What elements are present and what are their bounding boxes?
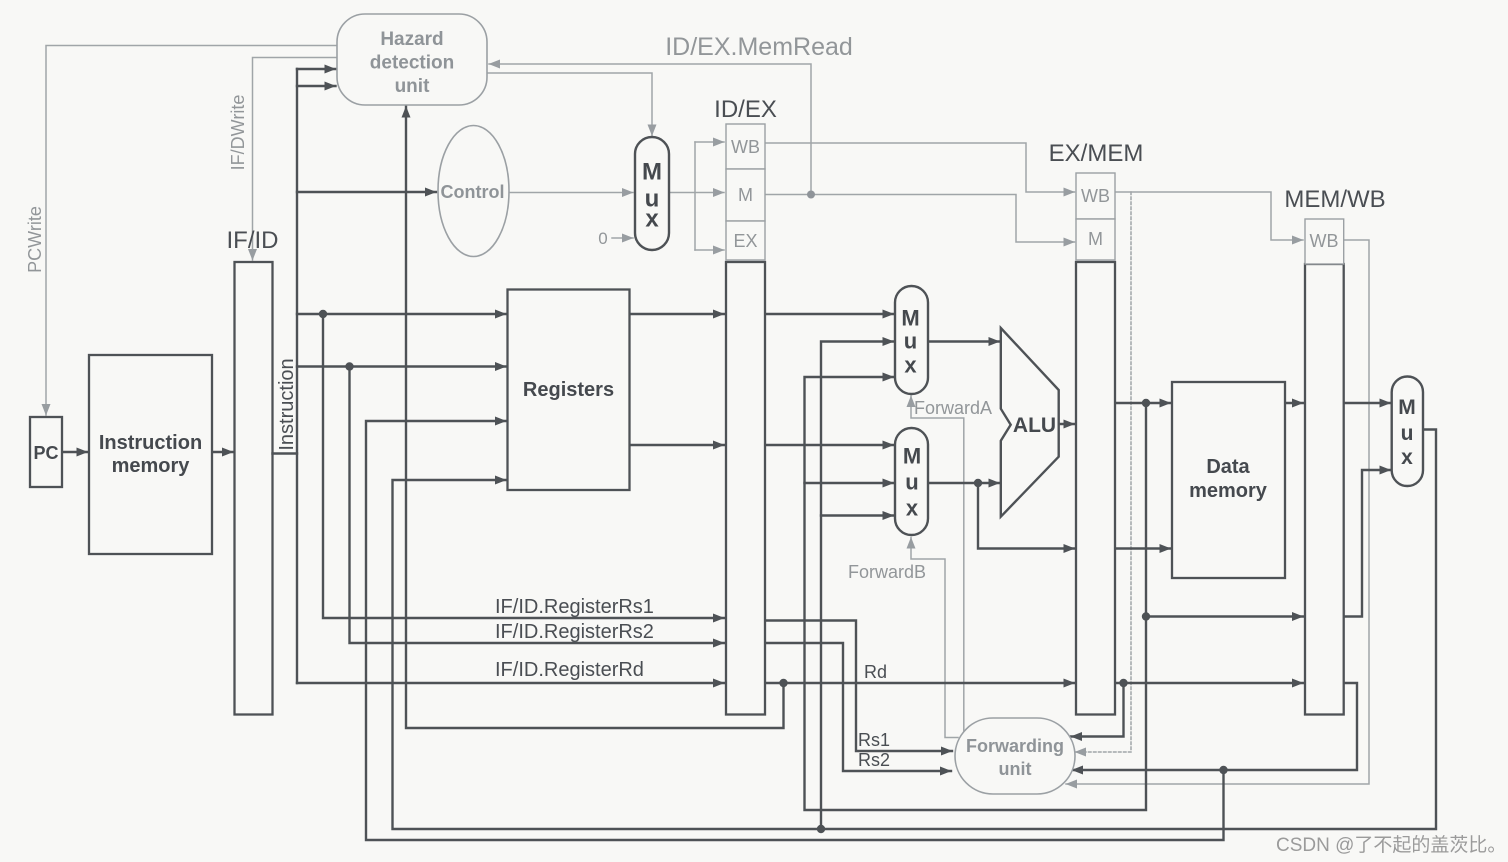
wire Mux3 output to ALU input 2 [928, 482, 1000, 484]
wire hazard control to Mux1 top [487, 73, 652, 136]
wire instruction to Control [297, 191, 436, 193]
ID/EX EX control box [726, 221, 765, 260]
wire IF/ID.RegisterRs1 to ID/EX [323, 314, 724, 618]
wire instruction to Registers read register 1 [297, 313, 506, 315]
wire Control output to Mux1 [509, 192, 633, 194]
svg-text:Instruction: Instruction [276, 358, 298, 450]
wire IF/ID.RegisterRd to ID/EX [297, 682, 724, 684]
Mux2 ForwardA mux [895, 286, 928, 394]
wire Rd from ID/EX to EX/MEM [765, 682, 1075, 684]
svg-text:u: u [904, 329, 917, 354]
svg-text:Instruction: Instruction [99, 432, 202, 454]
wire MEM/WB.RegisterRd to forwarding unit [1072, 683, 1357, 770]
svg-text:Rs1: Rs1 [858, 730, 890, 750]
wire ALU result to EX/MEM [1059, 423, 1075, 425]
svg-text:M: M [901, 306, 919, 331]
wire EX/MEM ALU result to Data memory address [1115, 402, 1171, 404]
svg-text:M: M [1398, 396, 1416, 419]
wire ID/EX read data 1 to Mux2 [765, 313, 894, 315]
node junction Rd hazard tap [779, 679, 787, 687]
node junction WB value forward tap [817, 825, 825, 833]
svg-text:WB: WB [1310, 231, 1339, 251]
wire Instruction memory to IF/ID [212, 451, 233, 453]
wire ForwardA from forwarding unit to Mux2 select [911, 396, 964, 734]
wire WB value stub to Mux3 input 3 [821, 514, 894, 516]
wire instruction to Registers read register 2 [297, 365, 506, 367]
wire split arrow to ID/EX EX [695, 249, 724, 251]
svg-text:M: M [738, 185, 753, 205]
node junction EX/MEM Rd tap [1119, 679, 1127, 687]
Data memory box [1172, 382, 1285, 578]
svg-text:x: x [904, 353, 917, 378]
node junction Rs1 tap [319, 310, 327, 318]
wire IF/ID.RegisterRs2 to ID/EX [350, 367, 725, 644]
wire Mux2 output to ALU input 1 [928, 340, 1000, 342]
ID/EX pipeline register body [726, 262, 765, 715]
Mux3 ForwardB mux [895, 428, 928, 535]
svg-text:IF/ID: IF/ID [227, 227, 279, 254]
wire EX/MEM.RegisterRd down to forwarding unit [1071, 683, 1124, 737]
svg-text:ALU: ALU [1013, 414, 1056, 437]
svg-text:u: u [1401, 422, 1414, 445]
svg-text:Hazard: Hazard [380, 29, 443, 50]
wire instruction bracket out of IF/ID [273, 452, 298, 454]
IF/ID pipeline register [235, 262, 273, 715]
wire ID/EX.RegisterRd feedback to hazard unit [406, 107, 784, 729]
svg-text:MEM/WB: MEM/WB [1284, 186, 1385, 213]
svg-text:Data: Data [1206, 456, 1250, 478]
svg-text:memory: memory [1189, 480, 1268, 502]
node junction Rs2 tap [345, 362, 353, 370]
svg-text:M: M [1088, 229, 1103, 249]
svg-text:CSDN @了不起的盖茨比。: CSDN @了不起的盖茨比。 [1276, 834, 1506, 856]
wire ALU result tap to MEM/WB [1146, 615, 1303, 617]
Mux1 stall mux [635, 137, 669, 250]
wire EX/MEM Rd to MEM/WB [1115, 682, 1303, 684]
node junction ALU result address tap [1142, 399, 1150, 407]
wire instruction stub to hazard unit input 1 [297, 68, 336, 70]
svg-text:ForwardB: ForwardB [848, 562, 926, 582]
svg-text:detection: detection [370, 53, 454, 74]
MEM/WB WB control box [1305, 219, 1344, 264]
wire ID/EX Rs1 to forwarding unit [765, 621, 952, 752]
wire ID/EX M to EX/MEM M [765, 195, 1075, 243]
wire Registers read data 1 to ID/EX [630, 313, 725, 315]
ID/EX WB control box [726, 124, 765, 169]
wire instruction stub to hazard unit input 2 [297, 85, 336, 87]
svg-text:ID/EX: ID/EX [714, 96, 777, 123]
svg-text:Forwarding: Forwarding [966, 736, 1064, 756]
ALU trapezoid [1001, 328, 1059, 517]
Registers box [508, 290, 630, 491]
wire EX/MEM WB to MEM/WB WB [1115, 192, 1303, 240]
forwarding unit [955, 718, 1075, 794]
Control unit ellipse [438, 126, 509, 257]
wire instruction bus vertical [296, 69, 298, 683]
svg-text:Rs2: Rs2 [858, 750, 890, 770]
svg-text:u: u [905, 470, 918, 495]
wire MEM/WB ALU result to Mux4 input 2 [1344, 470, 1391, 617]
svg-text:x: x [645, 206, 659, 233]
svg-text:0: 0 [598, 229, 607, 248]
svg-text:x: x [906, 496, 919, 521]
node junction MEM/WB Rd tap [1219, 766, 1227, 774]
svg-text:IF/DWrite: IF/DWrite [228, 95, 248, 171]
svg-text:Control: Control [441, 182, 505, 202]
wire zero constant into Mux1 [612, 237, 633, 239]
svg-text:unit: unit [395, 76, 430, 97]
Mux4 write-back mux [1392, 377, 1423, 487]
wire Registers read data 2 to ID/EX [630, 444, 725, 446]
svg-text:EX/MEM: EX/MEM [1049, 140, 1144, 167]
PC register box [30, 417, 62, 487]
EX/MEM pipeline register body [1076, 262, 1115, 715]
wire split arrow to ID/EX WB [695, 141, 724, 143]
wire EX/MEM forward stub to Mux3 input 2 [805, 482, 894, 484]
svg-text:IF/ID.RegisterRd: IF/ID.RegisterRd [495, 659, 644, 681]
svg-text:PCWrite: PCWrite [25, 206, 45, 273]
svg-text:ForwardA: ForwardA [914, 398, 992, 418]
wire PCWrite: hazard unit to PC top [46, 46, 337, 416]
svg-text:memory: memory [112, 455, 191, 477]
hazard detection unit [337, 14, 487, 105]
wire PC to Instruction memory [62, 451, 88, 453]
EX/MEM WB control box [1076, 173, 1115, 219]
svg-text:IF/ID.RegisterRs1: IF/ID.RegisterRs1 [495, 596, 654, 618]
wire MEM/WB WB RegWrite to forwarding unit [1066, 240, 1369, 784]
svg-text:EX: EX [733, 231, 757, 251]
svg-text:M: M [642, 159, 662, 186]
svg-text:M: M [903, 444, 921, 469]
svg-text:WB: WB [731, 137, 760, 157]
wire IF/DWrite: hazard unit to IF/ID top [253, 58, 338, 261]
wire Data memory read data to MEM/WB [1285, 402, 1303, 404]
wire EX/MEM ALU result forward down-left to muxes [805, 377, 1147, 810]
wire MEM/WB read data to Mux4 [1344, 402, 1391, 404]
svg-text:ID/EX.MemRead: ID/EX.MemRead [665, 33, 853, 61]
wire ForwardB from forwarding unit to Mux3 select [911, 538, 958, 738]
node junction ALU result MEM/WB tap [1142, 612, 1150, 620]
svg-text:x: x [1401, 446, 1413, 469]
svg-text:Rd: Rd [864, 662, 887, 682]
wire EX/MEM.RegWrite dotted to forwarding unit [1075, 192, 1131, 752]
Instruction memory box [89, 355, 212, 554]
MEM/WB pipeline register body [1305, 264, 1344, 715]
svg-text:unit: unit [999, 759, 1032, 779]
wire write data wrap: Mux4 output to Registers write data [393, 430, 1437, 830]
wire EX/MEM B value to Data memory write data [1115, 547, 1171, 549]
ID/EX M control box [726, 169, 765, 221]
wire store value B to EX/MEM [978, 483, 1075, 549]
wire ID/EX.MemRead feedback to hazard unit [489, 64, 811, 195]
wire split arrow to ID/EX M [695, 192, 724, 194]
svg-text:WB: WB [1081, 186, 1110, 206]
svg-text:PC: PC [33, 443, 58, 463]
wire ID/EX read data 2 to Mux3 [765, 444, 894, 446]
wire write register wrap: MEM/WB.RegisterRd to Registers write register [366, 421, 1224, 840]
wire Mux1 output to ID/EX control split bus [669, 142, 695, 250]
EX/MEM M control box [1076, 219, 1115, 260]
wire ID/EX WB to EX/MEM WB [765, 143, 1075, 192]
svg-text:Registers: Registers [523, 379, 614, 401]
node junction ID/EX M control tap [807, 191, 815, 199]
node junction B value tap [974, 479, 982, 487]
wire ID/EX Rs2 to forwarding unit [765, 643, 951, 771]
wire WB value forward vertical to Mux2/Mux3 [821, 342, 894, 830]
svg-text:IF/ID.RegisterRs2: IF/ID.RegisterRs2 [495, 621, 654, 643]
